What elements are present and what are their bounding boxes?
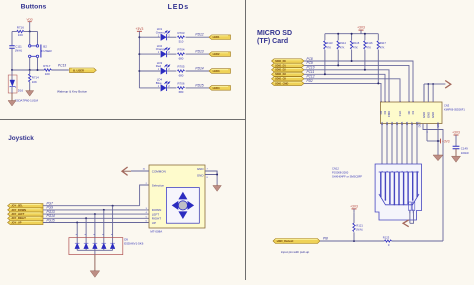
resistor R703: [178, 36, 185, 38]
svg-text:PD14: PD14: [195, 67, 203, 71]
wire SDIO_D1: [304, 65, 409, 102]
svg-text:LED2: LED2: [213, 52, 220, 56]
ground arrow card switch: [403, 220, 409, 227]
svg-text:CLK: CLK: [398, 111, 402, 117]
pin GND2 top: [427, 84, 429, 102]
junction R116 row: [364, 69, 366, 71]
pin DET: [423, 124, 443, 242]
resistor R114: [337, 34, 339, 41]
svg-text:USER: USER: [43, 49, 52, 53]
sheet divider horizontal: [0, 119, 246, 121]
svg-text:PJS008-2000: PJS008-2000: [332, 170, 349, 174]
svg-text:SDIO_CK: SDIO_CK: [275, 78, 286, 81]
svg-text:CMD: CMD: [387, 111, 391, 117]
svg-text:680: 680: [179, 90, 184, 94]
port LED1: [209, 35, 231, 40]
svg-text:JOY_SEL: JOY_SEL: [11, 204, 23, 208]
port LED3: [209, 69, 231, 74]
svg-text:DET: DET: [418, 122, 422, 128]
svg-text:Selection: Selection: [152, 184, 165, 188]
svg-text:Joystick: Joystick: [8, 135, 34, 142]
resistor R116: [364, 34, 366, 41]
wire SDIO_D0: [304, 61, 413, 102]
svg-text:CN12: CN12: [332, 166, 339, 170]
svg-text:PC13: PC13: [58, 64, 66, 68]
resistor R706: [178, 87, 185, 89]
svg-text:SDIO_CMD: SDIO_CMD: [275, 82, 288, 85]
svg-text:JOY_LEFT: JOY_LEFT: [11, 212, 25, 216]
port JOY_UP: [8, 220, 43, 224]
sheet divider vertical: [245, 0, 247, 280]
junction rail R115: [351, 33, 353, 35]
svg-text:PC8: PC8: [307, 57, 313, 61]
pin VCC: [437, 124, 439, 156]
svg-text:Buttons: Buttons: [21, 4, 47, 11]
svg-text:JOY_UP: JOY_UP: [11, 220, 22, 224]
port SDIO_D2: [272, 68, 305, 72]
junction R113 row: [324, 73, 326, 75]
svg-text:+3V3: +3V3: [350, 205, 358, 209]
svg-text:R117: R117: [380, 41, 387, 45]
svg-text:R121: R121: [356, 223, 363, 227]
port SDIO_D0: [272, 59, 305, 63]
svg-text:LEDs: LEDs: [168, 4, 190, 11]
junction detect R121: [353, 240, 355, 242]
wire esd drop JOY_SEL: [112, 206, 114, 241]
svg-text:47K: 47K: [340, 45, 345, 49]
svg-text:47K: 47K: [353, 45, 358, 49]
resistor R117: [377, 34, 379, 41]
LED LD1: [161, 34, 166, 41]
junction bus row1: [138, 36, 140, 38]
svg-text:Green: Green: [156, 30, 164, 34]
resistor R115: [351, 34, 353, 41]
pin GND3 top: [432, 84, 434, 102]
port JOY_RIGHT: [8, 216, 43, 220]
svg-text:C2: C2: [385, 121, 389, 125]
svg-text:C6: C6: [405, 121, 409, 125]
svg-text:C3: C3: [390, 121, 394, 125]
LED LD4: [161, 85, 166, 92]
svg-text:SDIO_D2: SDIO_D2: [275, 69, 286, 72]
svg-text:PD13: PD13: [195, 50, 203, 54]
svg-text:R114: R114: [340, 41, 347, 45]
svg-text:Blue: Blue: [156, 81, 162, 85]
svg-text:JOY_DOWN: JOY_DOWN: [11, 208, 26, 212]
svg-text:PD12: PD12: [195, 33, 203, 37]
pin card contact 4: [396, 124, 398, 165]
svg-text:R704: R704: [178, 48, 185, 52]
wire SDIO_D3: [304, 74, 385, 102]
ground arrow common: [123, 170, 131, 172]
resistor R716: [17, 30, 24, 32]
connector CN3 box: [380, 102, 442, 124]
port LED4: [209, 86, 231, 91]
esd diode 4: [102, 243, 107, 248]
svg-text:GND: GND: [431, 112, 435, 118]
svg-text:R123: R123: [383, 236, 390, 240]
ground for D16: [11, 93, 13, 101]
svg-text:C4: C4: [395, 121, 399, 125]
pushbutton B2 USER: [29, 32, 31, 45]
esd array D9 box: [69, 238, 123, 255]
pin card contact 7: [411, 124, 413, 165]
svg-text:10K: 10K: [32, 80, 37, 84]
pin card contact 2: [386, 124, 388, 165]
svg-text:R115: R115: [353, 41, 360, 45]
svg-text:GND: GND: [197, 173, 205, 177]
junction VDD-rail: [29, 31, 31, 33]
svg-text:ESDA6V1-5K6: ESDA6V1-5K6: [124, 241, 144, 245]
junction R114 row: [337, 64, 339, 66]
svg-text:[N/A]: [N/A]: [356, 228, 362, 232]
svg-text:(TF) Card: (TF) Card: [257, 38, 288, 45]
esd diode 3: [93, 243, 98, 248]
wire row JOY_RIGHT: [43, 217, 149, 219]
wire esd drop JOY_UP: [76, 223, 78, 241]
svg-text:C1: C1: [380, 121, 384, 125]
ground arrow VCC area: [433, 155, 443, 161]
joystick pad icon: [166, 188, 199, 224]
svg-text:SDIO_D3: SDIO_D3: [275, 73, 286, 76]
svg-text:MICRO SD: MICRO SD: [257, 30, 292, 37]
junction button-left: [29, 69, 31, 71]
svg-text:R116: R116: [366, 41, 373, 45]
wire cap to bottom rail: [11, 48, 13, 70]
LED LD3: [161, 68, 166, 75]
junction bottom-left: [11, 69, 13, 71]
svg-text:R113: R113: [326, 41, 333, 45]
svg-text:+3V3: +3V3: [452, 131, 460, 135]
ground joystick esd: [94, 255, 96, 271]
svg-text:uSD_Detect: uSD_Detect: [277, 239, 294, 243]
svg-text:680: 680: [179, 56, 184, 60]
ground for R714: [29, 90, 31, 91]
svg-text:R717: R717: [43, 64, 51, 68]
svg-text:[N/A]: [N/A]: [15, 49, 22, 53]
svg-text:+3V3: +3V3: [442, 139, 450, 143]
svg-text:VCC: VCC: [436, 122, 440, 128]
wire detect: [320, 240, 384, 242]
junction button-right: [37, 69, 39, 71]
wire row JOY_LEFT: [43, 213, 149, 215]
svg-text:PI8: PI8: [323, 237, 328, 241]
resistor R714: [29, 70, 31, 74]
svg-text:Red: Red: [156, 64, 162, 68]
svg-text:SDIO_D1: SDIO_D1: [275, 64, 286, 67]
junction gnd rail 1: [427, 83, 429, 85]
power +3V3 VCC bar: [440, 139, 442, 144]
svg-text:input pin with pull-up: input pin with pull-up: [281, 250, 309, 254]
capacitor C149: [453, 146, 460, 149]
svg-text:CN3: CN3: [444, 103, 450, 107]
svg-text:KMIP06-05D00F1: KMIP06-05D00F1: [444, 107, 465, 111]
svg-text:B_USER: B_USER: [73, 68, 84, 72]
wire SDIO_CMD: [304, 83, 381, 102]
junction gnd rail 2: [432, 83, 434, 85]
port LED2: [209, 52, 231, 57]
svg-text:PD2: PD2: [307, 79, 313, 83]
svg-text:PG15: PG15: [47, 218, 55, 222]
port uSD_Detect: [273, 239, 320, 244]
ground C149: [455, 149, 457, 156]
resistor R113: [324, 34, 326, 41]
svg-text:47K: 47K: [366, 45, 371, 49]
capacitor C111: [9, 46, 14, 48]
svg-text:MT-008A: MT-008A: [150, 230, 162, 234]
wire row JOY_DOWN: [43, 209, 149, 211]
svg-text:LED1: LED1: [213, 35, 220, 39]
svg-text:PC9: PC9: [307, 61, 313, 65]
svg-text:PD15: PD15: [195, 83, 203, 87]
svg-text:100nF: 100nF: [461, 151, 469, 155]
junction R115 row: [351, 60, 353, 62]
resistor R704: [178, 53, 185, 55]
svg-text:PC11: PC11: [307, 70, 315, 74]
svg-text:GND: GND: [197, 167, 205, 171]
pin card contact 1: [381, 124, 383, 165]
port JOY_SEL: [8, 204, 43, 208]
pin card contact 6: [406, 124, 408, 165]
wire LED row LD4: [139, 87, 160, 89]
junction VCC: [437, 140, 439, 142]
svg-text:R716: R716: [17, 26, 25, 30]
wire row JOY_SEL: [43, 205, 140, 207]
resistor R705: [178, 70, 185, 72]
card contact fingers: [380, 172, 382, 197]
svg-text:C7: C7: [410, 121, 414, 125]
svg-text:100: 100: [45, 72, 50, 76]
wire esd drop JOY_DOWN: [103, 210, 105, 241]
wire SDIO_D2: [304, 70, 389, 102]
resistor R121: [353, 232, 355, 241]
pin GND1 top: [423, 84, 425, 102]
port B_USER: [70, 68, 97, 73]
svg-text:GND: GND: [426, 112, 430, 118]
svg-text:SHXH04FF or SMSC8FF: SHXH04FF or SMSC8FF: [332, 174, 363, 178]
card switch pins: [409, 202, 412, 211]
junction JOY_SEL esd: [112, 205, 114, 207]
junction JOY_UP esd: [76, 222, 78, 224]
junction JOY_RIGHT esd: [85, 217, 87, 219]
esd diode D16: [8, 75, 17, 93]
junction JOY_DOWN esd: [103, 209, 105, 211]
wire top rail: [12, 31, 17, 33]
junction gnd pair: [216, 174, 218, 176]
wire esd drop JOY_LEFT: [94, 214, 96, 240]
joystick part MT-008A box: [149, 165, 205, 228]
svg-text:R705: R705: [178, 65, 185, 69]
svg-text:47K: 47K: [326, 45, 331, 49]
svg-text:510: 510: [179, 40, 184, 44]
svg-text:UP: UP: [152, 221, 156, 225]
wire esd drop JOY_RIGHT: [85, 218, 87, 240]
junction bus row3: [138, 70, 140, 72]
resistor R717: [44, 69, 51, 71]
micro sd card outline: [375, 164, 421, 220]
svg-text:R703: R703: [178, 31, 185, 35]
wire VCC to bar: [427, 140, 441, 142]
wire selection up: [140, 185, 149, 206]
port SDIO_D1: [272, 63, 305, 67]
svg-text:100: 100: [18, 33, 23, 37]
esd diode 2: [84, 243, 89, 248]
svg-text:COMMON: COMMON: [152, 170, 166, 174]
pin COMMON: [131, 170, 149, 172]
junction rail R114: [337, 33, 339, 35]
ground arrow joystick part: [216, 185, 218, 186]
svg-text:47K: 47K: [380, 45, 385, 49]
svg-text:C5: C5: [400, 121, 404, 125]
junction rail R116: [364, 33, 366, 35]
wire LED row LD2: [139, 53, 160, 55]
wire bottom rail: [12, 69, 44, 71]
wire LED bus: [138, 31, 140, 88]
svg-text:+3V3: +3V3: [136, 27, 144, 31]
svg-text:JOY_RIGHT: JOY_RIGHT: [11, 216, 26, 220]
wire left branch down: [11, 32, 13, 46]
junction bus row2: [138, 53, 140, 55]
esd diode 1: [75, 243, 80, 248]
pin card contact 8: [416, 124, 418, 165]
svg-text:LED4: LED4: [213, 86, 220, 90]
pin GND pair: [205, 171, 217, 175]
svg-text:D16: D16: [18, 88, 24, 92]
wire LED row LD1: [139, 36, 160, 38]
svg-text:VDD: VDD: [27, 17, 34, 21]
svg-text:C149: C149: [461, 146, 468, 150]
wire row JOY_UP: [43, 222, 149, 224]
esd diode 5: [110, 243, 115, 248]
svg-text:ESDA7P60-1U1M: ESDA7P60-1U1M: [15, 98, 39, 102]
ground arrow right: [445, 81, 451, 89]
junction R117 row: [377, 82, 379, 84]
LED LD2: [161, 51, 166, 58]
resistor R123: [385, 240, 392, 242]
svg-text:+3V3: +3V3: [357, 26, 365, 30]
port JOY_DOWN: [8, 208, 43, 212]
svg-text:680: 680: [179, 73, 184, 77]
svg-text:PC12: PC12: [307, 75, 315, 79]
wire gnd rail: [424, 83, 432, 85]
junction JOY_LEFT esd: [94, 213, 96, 215]
svg-text:PC10: PC10: [307, 66, 315, 70]
esd common bus: [77, 249, 112, 251]
pin card contact 3: [391, 124, 393, 165]
port SDIO_CK: [272, 77, 305, 81]
svg-text:D1: D1: [411, 110, 415, 114]
pin card contact 5: [401, 124, 403, 165]
svg-text:Orange: Orange: [156, 47, 166, 51]
port SDIO_CMD: [272, 81, 305, 85]
wire LED row LD3: [139, 70, 160, 72]
svg-text:Wakeup & Key Button: Wakeup & Key Button: [57, 89, 87, 93]
wire switch gnd: [409, 211, 411, 224]
wire SDIO_CK: [304, 79, 400, 102]
svg-text:R706: R706: [178, 82, 185, 86]
port JOY_LEFT: [8, 212, 43, 216]
wire pullup rail: [325, 33, 378, 35]
svg-text:SDIO_D0: SDIO_D0: [275, 60, 286, 63]
port SDIO_D3: [272, 72, 305, 76]
svg-text:LED3: LED3: [213, 69, 220, 73]
pin VSS bottom: [426, 124, 428, 142]
